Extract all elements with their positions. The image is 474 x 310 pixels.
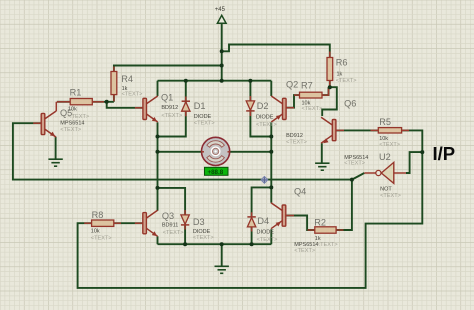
svg-text:<TEXT>: <TEXT> xyxy=(302,106,323,112)
svg-text:<TEXT>: <TEXT> xyxy=(336,78,357,84)
svg-text:1k: 1k xyxy=(315,236,321,242)
svg-text:<TEXT>: <TEXT> xyxy=(68,114,89,120)
svg-text:BD911: BD911 xyxy=(162,222,178,228)
svg-text:R6: R6 xyxy=(336,58,348,68)
svg-text:<TEXT>: <TEXT> xyxy=(380,193,401,199)
svg-text:<TEXT>: <TEXT> xyxy=(194,121,215,127)
svg-text:<TEXT>: <TEXT> xyxy=(60,127,81,133)
svg-text:<TEXT>: <TEXT> xyxy=(256,122,277,128)
svg-text:MPS6514: MPS6514 xyxy=(294,242,318,248)
svg-text:D2: D2 xyxy=(257,101,269,111)
svg-text:<TEXT>: <TEXT> xyxy=(317,242,338,248)
svg-text:DIODE: DIODE xyxy=(257,230,275,236)
svg-text:DIODE: DIODE xyxy=(193,229,211,235)
svg-text:Q6: Q6 xyxy=(344,98,356,108)
svg-text:BD912: BD912 xyxy=(286,133,303,139)
svg-text:10k: 10k xyxy=(68,107,77,113)
svg-text:R7: R7 xyxy=(301,81,313,91)
svg-text:MPS6514: MPS6514 xyxy=(60,120,84,126)
svg-text:<TEXT>: <TEXT> xyxy=(193,235,214,241)
svg-text:<TEXT>: <TEXT> xyxy=(344,160,365,166)
svg-text:<TEXT>: <TEXT> xyxy=(91,235,112,241)
svg-text:1k: 1k xyxy=(337,72,343,78)
svg-text:<TEXT>: <TEXT> xyxy=(286,140,307,146)
svg-text:+88.8: +88.8 xyxy=(208,169,224,176)
svg-text:<TEXT>: <TEXT> xyxy=(294,248,315,254)
svg-text:<TEXT>: <TEXT> xyxy=(161,113,182,119)
svg-text:<TEXT>: <TEXT> xyxy=(379,142,400,148)
svg-text:I/P: I/P xyxy=(433,143,456,164)
svg-text:R8: R8 xyxy=(92,210,104,220)
svg-text:+45: +45 xyxy=(215,7,226,13)
svg-text:DIODE: DIODE xyxy=(194,114,212,120)
svg-text:Q1: Q1 xyxy=(161,92,173,102)
svg-text:R5: R5 xyxy=(379,117,391,127)
svg-text:R1: R1 xyxy=(70,87,82,97)
svg-text:10k: 10k xyxy=(91,229,100,235)
svg-text:BD912: BD912 xyxy=(161,105,178,111)
svg-text:R4: R4 xyxy=(121,74,133,84)
svg-text:<TEXT>: <TEXT> xyxy=(257,237,278,243)
svg-text:Q4: Q4 xyxy=(294,186,306,196)
svg-text:D4: D4 xyxy=(257,216,269,226)
svg-text:<TEXT>: <TEXT> xyxy=(122,91,143,97)
svg-text:<TEXT>: <TEXT> xyxy=(163,230,184,236)
svg-text:D1: D1 xyxy=(194,101,206,111)
svg-text:Q2: Q2 xyxy=(286,79,298,89)
svg-text:DIODE: DIODE xyxy=(256,115,274,121)
svg-text:D3: D3 xyxy=(193,217,205,227)
svg-text:Q3: Q3 xyxy=(162,211,174,221)
svg-text:R2: R2 xyxy=(314,217,326,227)
svg-text:NOT: NOT xyxy=(380,187,392,193)
svg-text:U2: U2 xyxy=(379,152,391,162)
